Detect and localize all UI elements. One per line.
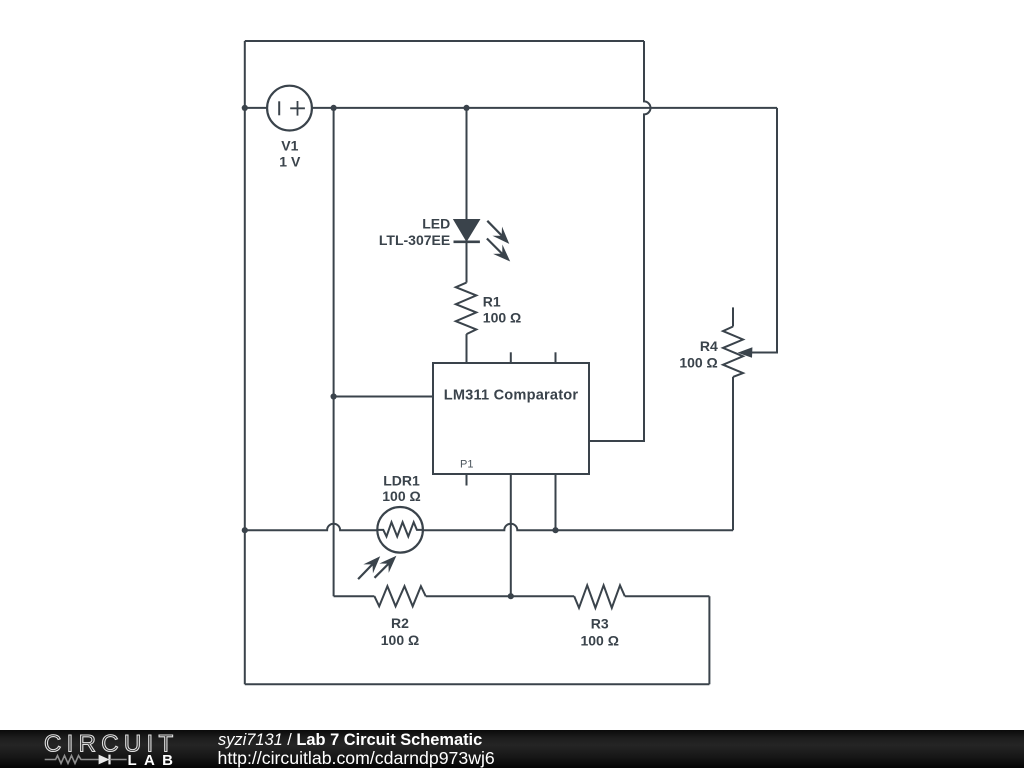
svg-text:1 V: 1 V	[279, 154, 301, 170]
svg-text:LDR1: LDR1	[383, 473, 420, 489]
wire U1 pin x555.5 down	[555, 474, 557, 530]
svg-text:R1: R1	[483, 293, 501, 309]
resistor R2 zigzag	[374, 586, 425, 606]
wire x333.6 drop	[333, 108, 335, 596]
footer bar	[0, 730, 1024, 768]
potentiometer R4 zigzag	[723, 327, 743, 377]
wire y530 rail with hops	[245, 524, 378, 531]
V1 minus bar	[278, 101, 280, 115]
footer url line	[218, 748, 495, 768]
wire U1 pin x510.8 down	[510, 474, 512, 596]
wire U1 top stub x555.5	[555, 352, 557, 363]
wire R1 to U1 top pin	[466, 334, 468, 363]
wire R3 right lead	[625, 595, 710, 597]
wire R2 left corner lead	[334, 595, 375, 597]
svg-text:R3: R3	[591, 615, 609, 631]
potentiometer R4 top stub	[732, 307, 734, 326]
wire U1 top stub x510.8	[510, 352, 512, 363]
wire U1 bottom stub x466.5	[466, 474, 468, 486]
wire left rail	[244, 41, 246, 684]
wire x644 drop to U1 right pin, hop over y108 rail	[589, 41, 651, 441]
node dot x466.5 / y108	[463, 105, 469, 111]
svg-text:P1: P1	[460, 459, 473, 471]
node dot left rail / V1	[242, 105, 248, 111]
svg-text:100 Ω: 100 Ω	[381, 632, 419, 648]
svg-text:LTL-307EE: LTL-307EE	[379, 232, 450, 248]
V1 plus sign	[290, 101, 305, 116]
wire U1 left pin	[334, 396, 433, 398]
svg-text:V1: V1	[281, 138, 298, 154]
node dot x333.6 / y108	[331, 105, 337, 111]
LDR1 light arrow 2	[375, 551, 402, 578]
photoresistor LDR1 zigzag	[377, 522, 423, 536]
node dot x333.6 / U1 left pin	[331, 393, 337, 399]
svg-text:100 Ω: 100 Ω	[483, 310, 521, 326]
svg-text:LAB: LAB	[128, 752, 181, 768]
svg-text:100 Ω: 100 Ω	[382, 488, 420, 504]
node dot left rail / y530	[242, 527, 248, 533]
wire x777 drop to R4 wiper	[752, 108, 777, 353]
LED D1 cathode bar	[454, 241, 480, 244]
resistor R1 zigzag	[456, 283, 477, 335]
svg-text:100 Ω: 100 Ω	[580, 632, 618, 648]
node dot x510.8 / y596	[508, 593, 514, 599]
wire top rail	[245, 40, 644, 42]
wire LED anode from rail	[466, 108, 468, 220]
LED D1 light arrow 2	[487, 239, 515, 267]
wire y108 rail	[312, 107, 777, 109]
svg-text:R2: R2	[391, 615, 409, 631]
photoresistor LDR1 circle	[377, 507, 423, 553]
voltage source V1 circle	[267, 86, 312, 131]
wire R4 bottom lead	[732, 377, 734, 530]
wire y108 rail left of V1	[245, 107, 267, 109]
LED D1 light arrow 1	[487, 221, 514, 249]
svg-text:LM311 Comparator: LM311 Comparator	[444, 388, 579, 404]
wire LED to R1	[466, 242, 468, 283]
CircuitLab logo	[40, 730, 190, 768]
LDR1 light arrow 1	[358, 552, 385, 579]
potentiometer R4 wiper arrow	[738, 347, 753, 358]
wire bottom rail	[245, 683, 710, 685]
svg-text:LED: LED	[422, 216, 450, 232]
wire riser to R3	[708, 596, 710, 684]
wire between R2 and R3	[426, 595, 575, 597]
LED D1 body	[455, 220, 479, 240]
footer title line	[218, 731, 482, 750]
node dot x555.5 / y530	[552, 527, 558, 533]
svg-text:R4: R4	[700, 338, 718, 354]
resistor R3 zigzag	[574, 585, 625, 608]
svg-text:100 Ω: 100 Ω	[679, 354, 717, 370]
op-amp U1 LM311 box	[433, 363, 589, 474]
